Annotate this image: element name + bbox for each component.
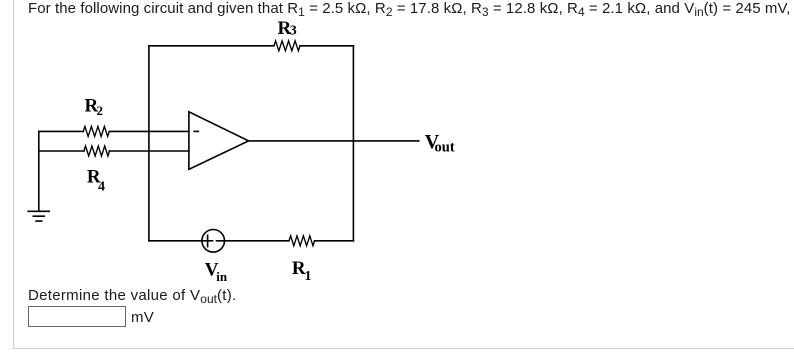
unit label mV bbox=[131, 309, 154, 326]
op-amp inverting input minus sign bbox=[194, 130, 198, 132]
wire: feedback top left segment bbox=[149, 45, 274, 47]
source Vin circle bbox=[202, 230, 225, 253]
op-amp U1 triangle bbox=[189, 112, 249, 170]
svg-text:out: out bbox=[435, 140, 455, 156]
wire: bottom input (to R4) bbox=[39, 150, 84, 152]
resistor R4 bbox=[84, 146, 110, 156]
wire: feedback top right segment bbox=[300, 45, 353, 47]
wire: top input (to R2) bbox=[39, 130, 84, 132]
wire: left vertical to ground bbox=[38, 131, 40, 211]
source Vin plus sign vertical bar bbox=[207, 235, 209, 246]
wire: output bbox=[249, 140, 419, 142]
wire: bottom right segment bbox=[315, 240, 354, 242]
resistor R2 bbox=[83, 126, 109, 136]
svg-text:1: 1 bbox=[305, 269, 312, 284]
wire: bottom left segment bbox=[149, 240, 213, 242]
wire: top input right of R2 bbox=[109, 130, 189, 132]
wire: feedback right vertical bbox=[352, 46, 354, 241]
bottom grey border bbox=[13, 348, 794, 349]
ground bbox=[28, 211, 49, 221]
question line 1 bbox=[28, 0, 790, 17]
resistor R3 bbox=[274, 41, 300, 51]
answer input box bbox=[28, 306, 126, 327]
svg-text:2: 2 bbox=[97, 103, 104, 118]
wire: bottom mid segment bbox=[217, 240, 290, 242]
resistor R1 bbox=[289, 236, 315, 246]
svg-text:in: in bbox=[216, 269, 228, 284]
svg-text:4: 4 bbox=[98, 179, 105, 194]
wire: bottom input right of R4 bbox=[109, 150, 189, 152]
svg-text:3: 3 bbox=[290, 24, 297, 39]
question line 2 bbox=[28, 287, 237, 304]
wire: feedback left vertical bbox=[148, 46, 150, 241]
left grey border bbox=[13, 0, 14, 348]
